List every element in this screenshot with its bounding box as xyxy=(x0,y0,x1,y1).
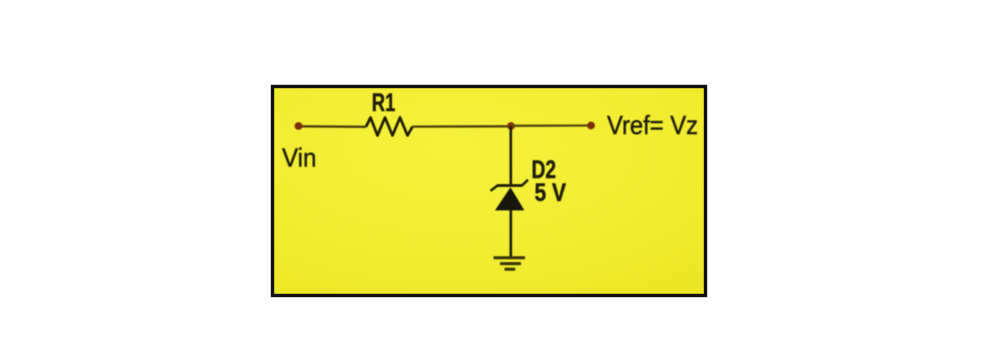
node Vref (terminal dot) xyxy=(587,122,595,130)
resistor R1 xyxy=(366,118,413,136)
wire: zener anode to ground xyxy=(509,210,512,258)
svg-text:R1: R1 xyxy=(372,89,396,117)
svg-text:Vin: Vin xyxy=(282,143,317,173)
node Vin (terminal dot) xyxy=(295,122,303,130)
svg-text:Vref= Vz: Vref= Vz xyxy=(607,110,698,140)
wire: junction to zener cathode xyxy=(509,126,512,186)
svg-text:5 V: 5 V xyxy=(535,179,567,207)
junction dot xyxy=(507,122,515,130)
ground xyxy=(494,258,526,270)
schematic panel background xyxy=(273,87,706,296)
wire: node Vin to resistor R1 xyxy=(298,125,366,128)
wire: junction to node Vref xyxy=(511,124,591,127)
zener diode D2 xyxy=(491,180,529,211)
wire: resistor R1 to junction xyxy=(413,125,512,128)
